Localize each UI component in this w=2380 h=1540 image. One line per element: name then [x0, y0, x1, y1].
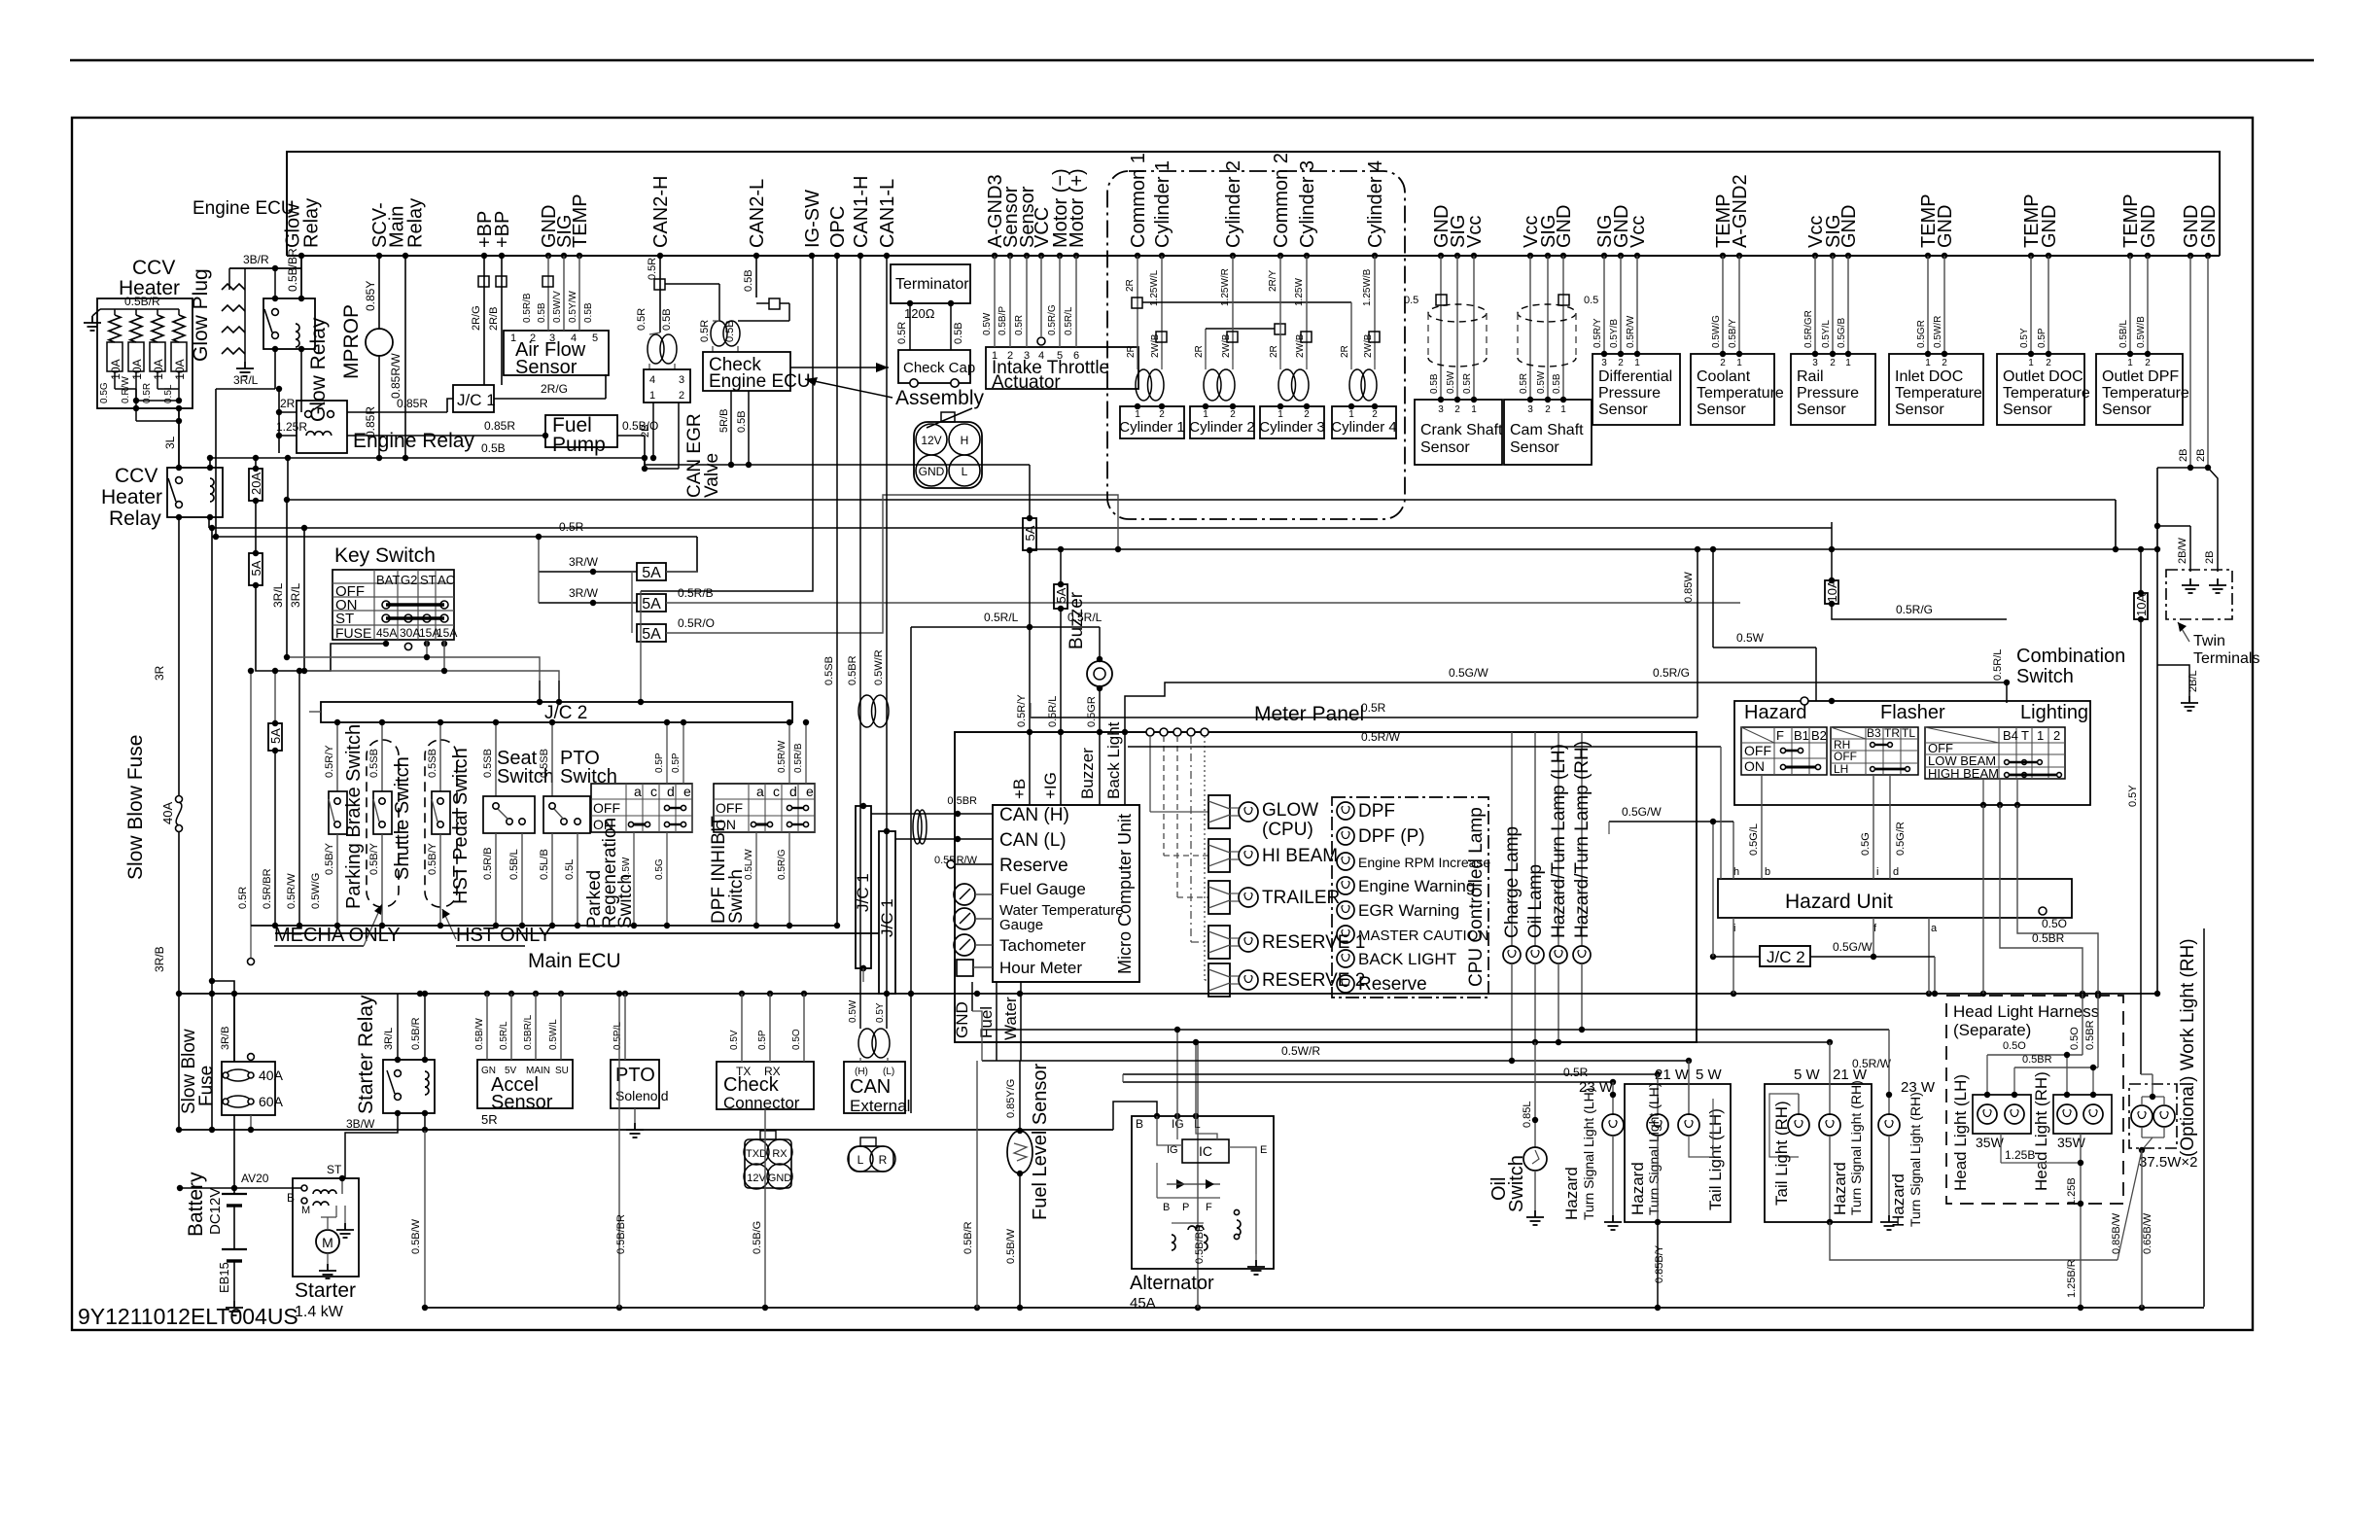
- svg-text:0.5B: 0.5B: [481, 441, 506, 455]
- svg-text:0.5W/G: 0.5W/G: [310, 873, 322, 909]
- svg-text:2B: 2B: [2204, 551, 2216, 564]
- svg-text:0.5B/R: 0.5B/R: [124, 295, 160, 308]
- svg-text:0.5R: 0.5R: [1014, 315, 1025, 335]
- wire 2R/G to air flow sensor: [494, 398, 606, 400]
- svg-text:2: 2: [1159, 409, 1165, 420]
- svg-text:Pump: Pump: [552, 434, 606, 456]
- wire 3R/L 1: [286, 500, 288, 657]
- wire 0.5W: [1713, 647, 1816, 648]
- wire long horizontal y543: [209, 527, 1832, 529]
- svg-text:1: 1: [1634, 358, 1640, 368]
- bus junction x=1090: [1057, 253, 1063, 259]
- bus junction x=1608: [1560, 253, 1566, 259]
- svg-text:Temperature: Temperature: [2102, 385, 2189, 402]
- svg-text:5: 5: [592, 332, 598, 344]
- J/C 2 box: [321, 702, 792, 722]
- CPU Controlled Lamp box: [1332, 797, 1488, 997]
- svg-text:0.5V: 0.5V: [729, 1030, 740, 1050]
- wire GND to AFS: [547, 256, 549, 331]
- glow plug coil 1: [222, 284, 245, 290]
- wire lighting B out: [1982, 805, 1984, 994]
- svg-text:0.5B/P: 0.5B/P: [997, 306, 1008, 335]
- svg-text:RX: RX: [772, 1148, 787, 1160]
- Tail Light RH box: [1765, 1084, 1872, 1222]
- svg-text:0.5Y: 0.5Y: [2019, 328, 2030, 348]
- CCV heater ground: [84, 316, 101, 331]
- svg-text:GND: GND: [2138, 205, 2159, 248]
- svg-text:OFF: OFF: [1744, 743, 1771, 758]
- CPU lamp Engine Warning: [1337, 877, 1354, 894]
- svg-text:0.5B/Y: 0.5B/Y: [324, 842, 335, 875]
- wire bus 1059: [982, 1029, 1889, 1031]
- svg-text:Sensor: Sensor: [1697, 402, 1746, 418]
- wire 0.5B/O: [617, 435, 645, 437]
- svg-text:Tail Light (LH): Tail Light (LH): [1706, 1108, 1725, 1210]
- wire check conn 0.5O: [803, 994, 805, 1062]
- svg-text:0.5R/W: 0.5R/W: [286, 873, 297, 909]
- svg-text:1: 1: [1845, 358, 1851, 368]
- svg-text:0.5B: 0.5B: [736, 410, 748, 433]
- svg-text:0.5G/W: 0.5G/W: [1622, 805, 1662, 819]
- Cylinder 1: [1120, 406, 1184, 438]
- svg-text:0.5R/B: 0.5R/B: [522, 293, 533, 323]
- wire AV20: [180, 1187, 302, 1189]
- CPU lamp DPF (P): [1337, 827, 1354, 845]
- svg-text:0.85W: 0.85W: [1683, 572, 1695, 603]
- svg-text:DPF: DPF: [1358, 801, 1395, 822]
- twisted pair CAN1 mid: [858, 695, 876, 727]
- svg-text:0.5Y: 0.5Y: [875, 1002, 886, 1023]
- svg-text:0.5W: 0.5W: [621, 857, 632, 880]
- svg-text:0.5P/L: 0.5P/L: [612, 1022, 623, 1050]
- slow blow fuse 40A symbol: [176, 796, 183, 803]
- svg-text:5 W: 5 W: [1696, 1067, 1723, 1083]
- battery plate short: [227, 1204, 242, 1207]
- wire 3B/R glow plugs to glow relay: [229, 267, 301, 269]
- wire accel 0.5BR/L: [535, 994, 537, 1060]
- wire ITA pin x=1090: [1059, 256, 1061, 347]
- CCV heater resistor 2: [135, 309, 137, 315]
- svg-text:3R/L: 3R/L: [383, 1028, 395, 1050]
- Fuel Pump box: [545, 415, 617, 447]
- wire Cylinder 2 pin2: [1232, 256, 1234, 360]
- svg-text:1: 1: [2127, 358, 2133, 368]
- shuttle capsule: [367, 740, 399, 907]
- wire 0.5B to 5A: [1029, 465, 1031, 518]
- bus junction x=1107: [1073, 253, 1079, 259]
- wire Common 1: [1137, 256, 1138, 360]
- svg-text:Common 1: Common 1: [1128, 153, 1149, 248]
- svg-text:1: 1: [1736, 358, 1742, 368]
- svg-text:0.5G: 0.5G: [1860, 832, 1872, 856]
- svg-text:CPU Controlled Lamp: CPU Controlled Lamp: [1466, 807, 1487, 987]
- wire SIG to AFS: [563, 256, 565, 331]
- injector group frame: [1107, 171, 1405, 519]
- svg-text:12V: 12V: [747, 1172, 766, 1184]
- svg-text:2: 2: [2145, 358, 2151, 368]
- svg-text:1: 1: [1277, 409, 1283, 420]
- meter connector circle 1: [1146, 728, 1154, 736]
- svg-text:1: 1: [1925, 358, 1931, 368]
- svg-text:3R/W: 3R/W: [569, 586, 599, 600]
- wire 2B/L: [2157, 665, 2189, 696]
- wire 0.5R column: [250, 671, 252, 926]
- svg-text:1.25W/B: 1.25W/B: [1362, 268, 1373, 306]
- buzzer: [1097, 656, 1102, 662]
- svg-text:0.5R: 0.5R: [1519, 373, 1529, 394]
- svg-text:A-GND2: A-GND2: [1730, 174, 1751, 248]
- wire TEMP to AFS: [578, 256, 580, 331]
- svg-text:Hazard: Hazard: [1889, 1173, 1907, 1227]
- svg-text:E: E: [1260, 1144, 1267, 1156]
- wire 2B to twin terminal: [2208, 468, 2218, 572]
- svg-text:Cylinder 4: Cylinder 4: [1331, 419, 1397, 436]
- svg-text:0.5R/G: 0.5R/G: [1653, 666, 1690, 680]
- svg-text:0.5R/W: 0.5R/W: [1626, 315, 1636, 348]
- check connector plug: [745, 1139, 791, 1188]
- svg-text:0.5R: 0.5R: [896, 322, 908, 344]
- bus junction x=1023: [992, 253, 997, 259]
- svg-text:1.25B: 1.25B: [2066, 1177, 2078, 1206]
- svg-text:0.5W: 0.5W: [848, 999, 858, 1023]
- svg-text:(Separate): (Separate): [1953, 1021, 2031, 1039]
- svg-text:Sensor: Sensor: [491, 1092, 553, 1113]
- wire 3R left long vertical: [178, 517, 180, 795]
- svg-text:0.5W: 0.5W: [1446, 370, 1456, 394]
- svg-text:CAN: CAN: [850, 1076, 891, 1098]
- oil switch ground: [1526, 1210, 1544, 1225]
- svg-text:0.5R/G: 0.5R/G: [777, 849, 787, 880]
- svg-text:d: d: [667, 784, 675, 799]
- wire Cylinder 4 pin2: [1374, 256, 1376, 360]
- svg-text:3B/R: 3B/R: [243, 253, 269, 266]
- svg-text:Parking Brake Switch: Parking Brake Switch: [343, 724, 365, 909]
- svg-text:0.5R/G: 0.5R/G: [1047, 304, 1058, 335]
- svg-text:1: 1: [2028, 358, 2034, 368]
- svg-text:0.5G/B: 0.5G/B: [1837, 318, 1847, 348]
- svg-text:Connector: Connector: [723, 1094, 800, 1112]
- bus junction x=2191: [2127, 253, 2133, 259]
- battery plate long: [222, 1193, 247, 1195]
- Buzzer symbol: [1087, 661, 1112, 686]
- svg-text:0.5SB: 0.5SB: [539, 749, 550, 778]
- svg-text:2R/G: 2R/G: [541, 382, 568, 396]
- svg-text:40A: 40A: [160, 802, 175, 824]
- svg-text:TR: TR: [1884, 726, 1900, 740]
- bus junction x=1592: [1545, 253, 1551, 259]
- wire to alternator IG: [1176, 1030, 1178, 1116]
- svg-text:0.5P: 0.5P: [2037, 328, 2047, 348]
- wire CAN2-H branch: [665, 283, 719, 285]
- svg-text:FUSE: FUSE: [335, 625, 371, 641]
- svg-text:0.5GR: 0.5GR: [1916, 320, 1927, 348]
- glow plug coil 2: [222, 305, 245, 311]
- fuse 5A: [249, 550, 263, 588]
- wire 0.5R bus: [1123, 1081, 1613, 1083]
- PTO Solenoid box: [611, 1060, 659, 1108]
- svg-text:Tachometer: Tachometer: [999, 936, 1086, 955]
- CCV Heater box: [97, 298, 192, 408]
- svg-text:0.5G/L: 0.5G/L: [1748, 823, 1760, 856]
- fuse 5A mid: [1023, 515, 1037, 553]
- svg-text:0.5G/R: 0.5G/R: [1895, 822, 1907, 856]
- bus junction x=1071: [1038, 253, 1044, 259]
- svg-text:0.5W/L: 0.5W/L: [548, 1019, 559, 1050]
- wire reserve: [955, 863, 993, 865]
- wire to J/C2: [640, 633, 642, 702]
- svg-text:0.5R: 0.5R: [1462, 373, 1473, 394]
- bus junction x=2271: [2205, 253, 2211, 259]
- svg-text:4: 4: [571, 332, 577, 344]
- svg-text:12V: 12V: [921, 434, 941, 447]
- indicator HI BEAM: [1163, 736, 1165, 856]
- wire Cylinder 4 pin1: [1350, 302, 1352, 360]
- twisted pair CAN to MCU: [913, 810, 922, 844]
- svg-text:2: 2: [1618, 358, 1624, 368]
- svg-text:10A: 10A: [130, 359, 144, 379]
- svg-text:Assembly: Assembly: [895, 387, 985, 409]
- svg-text:J/C 1: J/C 1: [854, 873, 872, 912]
- wire 0.5B/W: [1019, 1173, 1021, 1308]
- Hazard Unit box: [1718, 879, 2072, 918]
- wire to alternator B: [1113, 1102, 1157, 1130]
- hour meter icon: [957, 960, 973, 976]
- bus junction x=912: [884, 253, 890, 259]
- svg-text:Lighting: Lighting: [2020, 702, 2088, 723]
- Outlet DOC Temperature sensor: [2030, 256, 2032, 354]
- svg-text:CAN2-L: CAN2-L: [747, 179, 768, 248]
- Head Light LH box: [1973, 1095, 2031, 1134]
- wire 0.5R/BR top: [274, 671, 276, 723]
- svg-text:1.25W/R: 1.25W/R: [1220, 268, 1231, 306]
- svg-text:0.5L: 0.5L: [564, 859, 576, 880]
- svg-text:45A: 45A: [1130, 1295, 1156, 1312]
- svg-text:0.5P: 0.5P: [671, 752, 682, 773]
- svg-text:Pressure: Pressure: [1598, 385, 1661, 402]
- Parked Regeneration Switch table: [591, 784, 692, 832]
- wire IG-SW drop: [641, 256, 813, 591]
- wire 3R/L 2: [303, 528, 305, 671]
- wire back light: [1124, 732, 1126, 805]
- svg-text:Glow Plug: Glow Plug: [190, 268, 212, 362]
- svg-text:Switch: Switch: [615, 874, 636, 928]
- Work Light box: [2129, 1084, 2177, 1148]
- alternator IC box: [1182, 1139, 1229, 1163]
- svg-text:2R/Y: 2R/Y: [1268, 269, 1278, 292]
- svg-text:0.85L: 0.85L: [1522, 1101, 1533, 1128]
- fuse 5A below JC2: [268, 720, 283, 753]
- wire long y=565: [1030, 548, 2157, 550]
- Differential Pressure sensor: [1603, 256, 1605, 354]
- svg-text:1: 1: [1203, 409, 1208, 420]
- wire ITA pin x=1056: [1026, 256, 1028, 347]
- wire 0.5G/W staircase: [1125, 682, 2007, 732]
- fuse 5A row2: [637, 594, 666, 612]
- svg-text:0.5W/G: 0.5W/G: [1711, 315, 1722, 348]
- svg-text:2: 2: [1545, 404, 1551, 415]
- svg-text:Main ECU: Main ECU: [528, 950, 621, 972]
- svg-text:Gauge: Gauge: [999, 917, 1043, 933]
- wire 0.5BR route: [2000, 805, 2082, 994]
- svg-text:B3: B3: [1867, 726, 1881, 740]
- svg-text:P: P: [1182, 1202, 1189, 1213]
- svg-text:0.5R/L: 0.5R/L: [1047, 696, 1059, 727]
- HST capsule: [425, 740, 457, 907]
- svg-text:GND: GND: [768, 1172, 792, 1184]
- Parking Brake Switch: [336, 722, 338, 791]
- wire MPROP drop: [378, 256, 380, 330]
- svg-text:J/C 1: J/C 1: [878, 898, 896, 937]
- Cylinder 4: [1332, 406, 1396, 438]
- wire CAN L to MCU: [895, 838, 993, 840]
- dpf inhibit wires: [788, 722, 790, 784]
- svg-text:0.5R/Y: 0.5R/Y: [1016, 694, 1028, 727]
- svg-text:0.5B: 0.5B: [1429, 373, 1440, 394]
- svg-text:Fuse: Fuse: [196, 1066, 217, 1106]
- Cylinder 2: [1190, 406, 1254, 438]
- svg-text:2: 2: [1454, 404, 1460, 415]
- wire ITA pin4: [1040, 256, 1042, 336]
- svg-text:3R: 3R: [153, 665, 166, 681]
- svg-text:GND: GND: [919, 465, 945, 478]
- wire 0.5P/L: [624, 994, 626, 1060]
- svg-text:0.5Y/L: 0.5Y/L: [1821, 320, 1832, 348]
- svg-text:Sensor: Sensor: [2102, 402, 2152, 418]
- wire 0.5R/L horizontal: [911, 626, 1100, 628]
- svg-text:0.5R: 0.5R: [559, 520, 584, 534]
- wire far right vertical: [2203, 928, 2205, 1307]
- svg-text:Head Light (LH): Head Light (LH): [1951, 1074, 1970, 1191]
- svg-text:Temperature: Temperature: [1895, 385, 1982, 402]
- alternator E wire: [1229, 1147, 1256, 1254]
- wire 0.5R: [909, 303, 911, 350]
- wire left vertical: [215, 389, 217, 537]
- svg-text:e: e: [806, 784, 814, 799]
- bus junction x=1867: [1812, 253, 1818, 259]
- battery ground: [226, 1301, 243, 1315]
- svg-text:5A: 5A: [642, 565, 661, 581]
- wire +B: [1029, 732, 1031, 805]
- svg-text:B: B: [287, 1191, 295, 1205]
- twisted pair check ECU: [711, 321, 727, 346]
- alternator ground: [1247, 1260, 1265, 1275]
- svg-text:10A: 10A: [2134, 594, 2149, 616]
- J/C 1 box: [453, 385, 494, 412]
- svg-text:0.5B: 0.5B: [583, 302, 594, 323]
- svg-text:Cylinder 2: Cylinder 2: [1189, 419, 1255, 436]
- Engine Relay box: [297, 401, 347, 453]
- svg-text:Switch: Switch: [1506, 1155, 1527, 1212]
- fuse 10A right: [2134, 590, 2149, 622]
- svg-text:LH: LH: [1834, 762, 1848, 776]
- Terminator box: [891, 264, 970, 303]
- svg-text:B1: B1: [1794, 728, 1809, 743]
- svg-text:5A: 5A: [642, 596, 661, 612]
- lamp Oil Lamp: [1534, 732, 1536, 946]
- wire headlight RH feed 2: [2092, 1067, 2094, 1095]
- wire 0.5B: [950, 303, 952, 350]
- hazard LH ground: [1604, 1215, 1622, 1230]
- wire CAN H to MCU: [871, 813, 993, 815]
- 2B/L ground: [2181, 696, 2198, 711]
- Cam Shaft Sensor: [1529, 256, 1531, 400]
- svg-text:Micro Computer Unit: Micro Computer Unit: [1115, 814, 1135, 974]
- svg-text:40A: 40A: [259, 1067, 284, 1083]
- lamp Charge Lamp: [1511, 732, 1513, 946]
- bus junction x=835: [809, 253, 815, 259]
- wire ITA pin x=1039: [1009, 256, 1011, 347]
- svg-text:Switch: Switch: [2016, 666, 2074, 687]
- wire 0.85W: [1697, 549, 1698, 701]
- svg-text:F: F: [1206, 1202, 1212, 1213]
- svg-text:OFF: OFF: [1834, 750, 1857, 763]
- Key Switch table: [332, 570, 454, 640]
- svg-text:0.5B: 0.5B: [953, 322, 964, 344]
- PTO solenoid ground: [626, 1123, 644, 1137]
- svg-text:TXD: TXD: [746, 1148, 767, 1160]
- svg-text:Hazard: Hazard: [1744, 702, 1806, 723]
- svg-text:0.5P: 0.5P: [654, 752, 665, 773]
- parked regen wires: [666, 722, 668, 784]
- svg-text:5A: 5A: [1054, 587, 1068, 603]
- Air Flow Sensor box: [504, 331, 609, 375]
- bus junction x=310: [298, 253, 304, 259]
- svg-text:AV20: AV20: [241, 1172, 269, 1185]
- svg-text:HST Pedal Switch: HST Pedal Switch: [450, 748, 472, 904]
- wire CAN2-H drop: [659, 256, 661, 332]
- Accel Sensor box: [477, 1060, 573, 1108]
- svg-text:3B/W: 3B/W: [346, 1117, 375, 1131]
- svg-text:GND: GND: [1838, 205, 1860, 248]
- svg-text:3R/L: 3R/L: [289, 582, 302, 608]
- svg-text:1.25B: 1.25B: [2005, 1148, 2035, 1162]
- svg-text:0.5Y: 0.5Y: [2127, 785, 2139, 807]
- svg-text:G2: G2: [401, 573, 417, 587]
- diagram border frame: [72, 118, 2253, 1330]
- svg-text:Relay: Relay: [109, 507, 161, 530]
- wire 0.5BR inner: [2014, 1067, 2098, 1068]
- svg-text:0.5: 0.5: [1584, 295, 1598, 306]
- CPU lamp BACK LIGHT: [1337, 950, 1354, 967]
- svg-text:h: h: [1733, 866, 1739, 878]
- tachometer icon: [954, 934, 975, 956]
- svg-text:0.5R: 0.5R: [237, 887, 249, 909]
- svg-text:0.5B/W: 0.5B/W: [474, 1018, 485, 1050]
- svg-text:3: 3: [1812, 358, 1818, 368]
- bus junction x=1772: [1720, 253, 1726, 259]
- twisted pair CAN external: [858, 1029, 876, 1058]
- svg-text:Sensor: Sensor: [1420, 439, 1470, 456]
- svg-text:Shuttle Switch: Shuttle Switch: [392, 756, 413, 880]
- wire key AC to JC2: [558, 681, 560, 702]
- bus junction x=1789: [1736, 253, 1742, 259]
- wire 0.85R engine relay to J/C1: [347, 411, 447, 413]
- svg-text:J/C 2: J/C 2: [1767, 948, 1805, 966]
- wire 0.65B/W: [2141, 1150, 2143, 1308]
- bus junction x=2209: [2145, 253, 2151, 259]
- bus junction x=1650: [1601, 253, 1607, 259]
- svg-text:2R: 2R: [1269, 345, 1279, 358]
- wire glow relay from 3B/R: [274, 268, 276, 298]
- wire 2B bus: [2157, 467, 2208, 469]
- wire 0.85B/Y: [1657, 1222, 1659, 1308]
- wire to fuse row: [640, 591, 642, 633]
- svg-text:1.25R: 1.25R: [276, 420, 307, 434]
- wire Main Relay drop: [404, 256, 406, 458]
- bus junction x=778: [753, 253, 759, 259]
- svg-text:0.85R: 0.85R: [397, 397, 428, 410]
- svg-text:2: 2: [1830, 358, 1836, 368]
